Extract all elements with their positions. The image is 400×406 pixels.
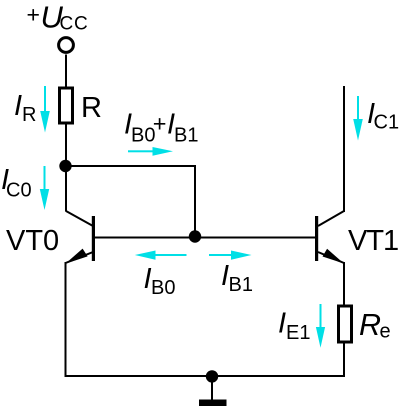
label IB1	[221, 260, 253, 296]
current arrow IB0+IB1	[128, 147, 173, 156]
base node	[189, 230, 201, 242]
wire node to corner (horizontal)	[65, 165, 195, 167]
svg-text:R: R	[359, 308, 381, 342]
resistor Re	[339, 306, 352, 342]
label IR	[14, 90, 36, 126]
transistor VT0 (mirrored, base on right)	[65, 211, 95, 264]
label +Ucc	[27, 0, 89, 35]
base wire VT0 to VT1	[95, 237, 315, 239]
transistor VT1	[315, 211, 344, 264]
VT1 collector wire	[343, 86, 345, 212]
emitter diagonal	[66, 252, 94, 263]
wire corner down to base node	[194, 165, 196, 237]
svg-text:VT1: VT1	[348, 225, 398, 257]
svg-text:VT0: VT0	[6, 225, 59, 257]
wire terminal to R	[65, 55, 67, 88]
svg-text:B1: B1	[174, 125, 198, 147]
svg-text:C1: C1	[374, 112, 400, 134]
terminal +Ucc	[59, 38, 74, 53]
current arrow IB0 (left)	[135, 251, 187, 260]
svg-text:R: R	[81, 92, 102, 124]
emitter diagonal	[318, 252, 344, 263]
collector diagonal	[66, 211, 93, 226]
svg-text:E1: E1	[286, 322, 310, 344]
ground node	[206, 370, 218, 382]
svg-text:e: e	[380, 321, 391, 343]
svg-text:I: I	[278, 308, 286, 340]
wire R to VT0 collector corner	[65, 123, 67, 212]
current arrow IB1 (right)	[209, 251, 252, 260]
current arrow IC1	[353, 96, 363, 141]
VT0 emitter wire down	[65, 262, 67, 377]
current arrow IR	[40, 86, 50, 133]
svg-text:B0: B0	[151, 277, 175, 299]
current arrow IE1	[316, 304, 325, 348]
label IE1	[278, 308, 310, 345]
bottom wire	[65, 375, 345, 377]
ground stem	[211, 376, 213, 400]
label Re	[359, 308, 391, 343]
svg-text:R: R	[22, 104, 36, 126]
svg-text:C0: C0	[6, 180, 32, 202]
VT1 emitter wire down to Re	[343, 262, 345, 306]
svg-text:+: +	[153, 111, 167, 137]
label IB0+IB1	[124, 109, 198, 147]
label IB0	[144, 263, 176, 299]
label IC1	[367, 98, 399, 134]
current arrow IC0	[40, 166, 49, 210]
svg-text:CC: CC	[60, 14, 89, 35]
ground bar	[199, 400, 227, 406]
svg-text:B1: B1	[229, 274, 253, 296]
wire Re to bottom	[343, 342, 345, 377]
resistor R	[60, 88, 73, 123]
emitter arrow	[65, 249, 87, 264]
label IC0	[1, 164, 32, 202]
node below R	[59, 160, 71, 172]
svg-text:I: I	[14, 90, 22, 122]
emitter arrow	[323, 249, 344, 264]
base bar	[315, 216, 318, 261]
base bar	[92, 216, 95, 261]
collector diagonal	[318, 211, 344, 226]
svg-text:+: +	[27, 2, 40, 28]
